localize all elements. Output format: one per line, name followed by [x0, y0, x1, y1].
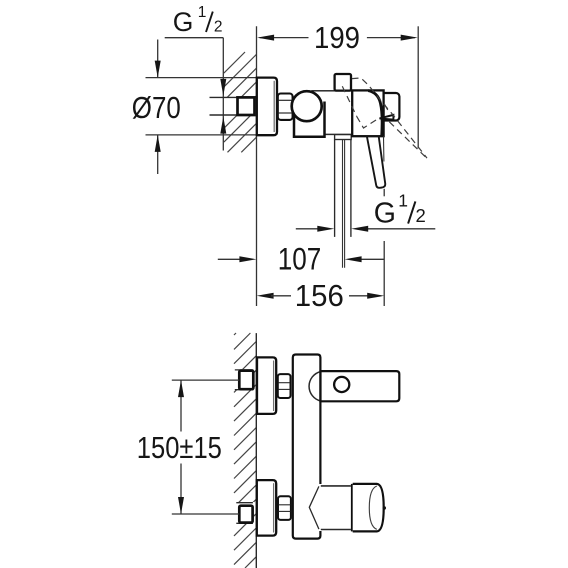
svg-text:Ø70: Ø70 — [132, 90, 181, 125]
svg-text:150±15: 150±15 — [137, 431, 222, 465]
svg-text:2: 2 — [416, 205, 426, 226]
svg-text:G: G — [173, 7, 194, 37]
svg-text:199: 199 — [314, 20, 360, 55]
svg-text:1: 1 — [198, 4, 207, 21]
svg-text:2: 2 — [214, 19, 223, 36]
svg-text:107: 107 — [278, 240, 322, 276]
svg-text:1: 1 — [398, 191, 408, 211]
svg-text:156: 156 — [295, 278, 344, 313]
svg-text:G: G — [374, 198, 396, 230]
